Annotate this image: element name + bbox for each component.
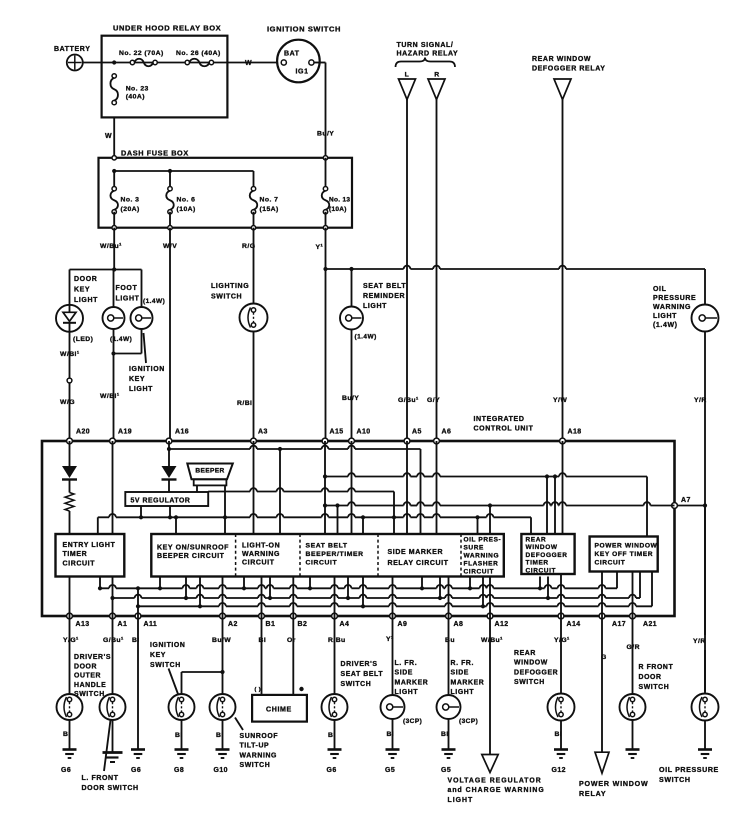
svg-text:REAR WINDOW: REAR WINDOW xyxy=(532,56,591,63)
svg-text:( ): ( ) xyxy=(255,687,261,693)
svg-text:RELAY CIRCUIT: RELAY CIRCUIT xyxy=(388,560,449,567)
svg-text:W: W xyxy=(245,60,252,67)
svg-text:DEFOGGER: DEFOGGER xyxy=(514,669,558,676)
svg-text:DEFOGGER RELAY: DEFOGGER RELAY xyxy=(532,66,606,73)
svg-text:(20A): (20A) xyxy=(121,206,140,213)
svg-text:BAT: BAT xyxy=(284,51,300,58)
svg-text:SIDE MARKER: SIDE MARKER xyxy=(388,549,444,556)
svg-text:CHIME: CHIME xyxy=(266,706,292,714)
svg-text:MARKER: MARKER xyxy=(395,679,429,686)
svg-text:(10A): (10A) xyxy=(177,206,196,213)
svg-text:OIL: OIL xyxy=(653,286,667,293)
svg-text:TIMER: TIMER xyxy=(526,560,549,567)
svg-text:Bl: Bl xyxy=(387,731,395,738)
svg-text:Bu: Bu xyxy=(445,637,455,644)
svg-text:Bu/Y: Bu/Y xyxy=(317,131,334,138)
svg-text:CIRCUIT: CIRCUIT xyxy=(63,560,96,567)
svg-text:Bl: Bl xyxy=(441,731,449,738)
svg-text:LIGHT: LIGHT xyxy=(74,297,98,304)
svg-text:A14: A14 xyxy=(567,621,581,628)
svg-text:BEEPER CIRCUIT: BEEPER CIRCUIT xyxy=(157,553,225,560)
svg-text:OUTER: OUTER xyxy=(74,673,101,680)
svg-text:SWITCH: SWITCH xyxy=(240,762,271,769)
svg-text:G8: G8 xyxy=(174,767,184,774)
svg-text:B2: B2 xyxy=(298,621,308,628)
svg-text:WINDOW: WINDOW xyxy=(526,544,558,551)
svg-text:LIGHT: LIGHT xyxy=(363,303,387,310)
svg-text:R/Bu: R/Bu xyxy=(328,637,346,644)
svg-text:A21: A21 xyxy=(643,621,657,628)
svg-text:G/Bu¹: G/Bu¹ xyxy=(103,637,124,644)
svg-text:SWITCH: SWITCH xyxy=(341,681,372,688)
svg-text:SWITCH: SWITCH xyxy=(150,662,181,669)
svg-text:WARNING: WARNING xyxy=(242,551,280,558)
svg-text:RELAY: RELAY xyxy=(579,790,606,798)
svg-text:No. 6: No. 6 xyxy=(177,197,196,204)
svg-text:Y/R: Y/R xyxy=(694,397,707,404)
svg-text:WARNING: WARNING xyxy=(240,752,278,759)
svg-text:A4: A4 xyxy=(340,621,350,628)
svg-text:A5: A5 xyxy=(412,429,422,436)
svg-text:LIGHT-ON: LIGHT-ON xyxy=(242,543,280,550)
svg-text:OIL PRES-: OIL PRES- xyxy=(464,537,502,544)
svg-text:(40A): (40A) xyxy=(126,94,145,101)
svg-text:A19: A19 xyxy=(118,429,132,436)
svg-text:W/Bu¹: W/Bu¹ xyxy=(100,243,122,250)
svg-text:A9: A9 xyxy=(398,621,408,628)
svg-text:ENTRY LIGHT: ENTRY LIGHT xyxy=(63,542,116,549)
svg-text:PRESSURE: PRESSURE xyxy=(653,295,696,302)
svg-text:OIL PRESSURE: OIL PRESSURE xyxy=(659,766,719,774)
svg-text:LIGHT: LIGHT xyxy=(129,386,153,393)
svg-text:POWER WINDOW: POWER WINDOW xyxy=(595,543,658,550)
svg-text:DASH FUSE BOX: DASH FUSE BOX xyxy=(121,149,189,158)
svg-text:G10: G10 xyxy=(214,767,228,774)
svg-text:CONTROL UNIT: CONTROL UNIT xyxy=(474,426,534,433)
svg-text:IGNITION: IGNITION xyxy=(129,366,165,373)
svg-text:G6: G6 xyxy=(327,767,337,774)
svg-text:Bl: Bl xyxy=(63,731,71,738)
svg-text:SEAT BELT: SEAT BELT xyxy=(306,543,348,550)
svg-text:G5: G5 xyxy=(441,767,451,774)
svg-text:Y/R: Y/R xyxy=(693,638,706,645)
svg-text:CIRCUIT: CIRCUIT xyxy=(306,559,338,566)
svg-text:WARNING: WARNING xyxy=(653,304,691,311)
svg-text:SWITCH: SWITCH xyxy=(514,679,545,686)
svg-text:W: W xyxy=(105,133,112,140)
svg-text:R FRONT: R FRONT xyxy=(639,664,674,671)
svg-text:TURN SIGNAL/: TURN SIGNAL/ xyxy=(397,42,454,49)
svg-text:W/Bl¹: W/Bl¹ xyxy=(100,393,120,400)
svg-text:(3CP): (3CP) xyxy=(403,718,422,725)
svg-text:Y/G¹: Y/G¹ xyxy=(63,637,79,644)
svg-text:SWITCH: SWITCH xyxy=(639,684,670,691)
svg-text:A15: A15 xyxy=(330,429,344,436)
svg-text:A7: A7 xyxy=(681,497,691,504)
svg-text:and CHARGE WARNING: and CHARGE WARNING xyxy=(448,787,545,794)
svg-text:W/G: W/G xyxy=(60,399,75,406)
svg-text:R. FR.: R. FR. xyxy=(451,660,475,667)
svg-text:KEY: KEY xyxy=(150,652,166,659)
svg-text:SUNROOF: SUNROOF xyxy=(240,733,279,740)
svg-text:BEEPER/TIMER: BEEPER/TIMER xyxy=(306,551,364,558)
svg-text:IGNITION SWITCH: IGNITION SWITCH xyxy=(267,25,341,34)
svg-text:W/Bl¹: W/Bl¹ xyxy=(60,351,80,358)
svg-text:CIRCUIT: CIRCUIT xyxy=(242,559,275,566)
svg-text:A1: A1 xyxy=(118,621,128,628)
svg-text:No. 26 (40A): No. 26 (40A) xyxy=(176,50,221,57)
svg-text:SURE: SURE xyxy=(464,545,485,552)
svg-text:(1.4W): (1.4W) xyxy=(355,334,377,341)
svg-text:DEFOGGER: DEFOGGER xyxy=(526,552,568,559)
svg-text:DRIVER'S: DRIVER'S xyxy=(74,654,111,661)
svg-text:SWITCH: SWITCH xyxy=(659,776,691,784)
svg-text:No. 23: No. 23 xyxy=(126,86,149,93)
svg-text:G12: G12 xyxy=(552,767,566,774)
svg-text:No. 22 (70A): No. 22 (70A) xyxy=(119,50,164,57)
svg-text:CIRCUIT: CIRCUIT xyxy=(464,569,495,576)
svg-text:TIMER: TIMER xyxy=(63,551,88,558)
svg-text:SIDE: SIDE xyxy=(451,670,469,677)
svg-text:SWITCH: SWITCH xyxy=(211,294,242,301)
svg-text:DOOR SWITCH: DOOR SWITCH xyxy=(82,785,139,792)
svg-text:Y¹: Y¹ xyxy=(316,244,324,251)
svg-text:KEY OFF TIMER: KEY OFF TIMER xyxy=(595,551,654,558)
svg-text:(1.4W): (1.4W) xyxy=(143,298,165,305)
svg-text:5V REGULATOR: 5V REGULATOR xyxy=(131,498,191,505)
svg-text:DRIVER'S: DRIVER'S xyxy=(341,661,378,668)
svg-text:A13: A13 xyxy=(76,621,90,628)
svg-text:WARNING: WARNING xyxy=(464,553,500,560)
svg-text:A20: A20 xyxy=(76,429,90,436)
svg-text:DOOR: DOOR xyxy=(74,663,97,670)
svg-text:REAR: REAR xyxy=(514,650,536,657)
svg-text:LIGHT: LIGHT xyxy=(448,797,474,804)
svg-text:FLASHER: FLASHER xyxy=(464,561,499,568)
svg-text:IGNITION: IGNITION xyxy=(150,642,185,649)
svg-text:Bu/Y: Bu/Y xyxy=(342,395,359,402)
svg-text:UNDER HOOD RELAY BOX: UNDER HOOD RELAY BOX xyxy=(113,24,221,33)
svg-text:DOOR: DOOR xyxy=(639,674,662,681)
svg-text:A6: A6 xyxy=(442,429,452,436)
svg-text:A16: A16 xyxy=(175,429,189,436)
svg-text:A17: A17 xyxy=(612,621,626,628)
svg-text:HAZARD RELAY: HAZARD RELAY xyxy=(397,51,459,58)
svg-text:POWER WINDOW: POWER WINDOW xyxy=(579,780,649,788)
svg-text:G/Bu¹: G/Bu¹ xyxy=(398,397,419,404)
svg-text:IG1: IG1 xyxy=(296,69,309,76)
svg-text:A10: A10 xyxy=(357,429,371,436)
svg-text:LIGHT: LIGHT xyxy=(451,689,475,696)
svg-text:L. FR.: L. FR. xyxy=(395,660,418,667)
svg-text:KEY ON/SUNROOF: KEY ON/SUNROOF xyxy=(157,545,229,552)
svg-text:(LED): (LED) xyxy=(73,336,93,343)
svg-text:W/Bu¹: W/Bu¹ xyxy=(481,637,503,644)
svg-text:Bl: Bl xyxy=(175,732,183,739)
svg-text:SEAT BELT: SEAT BELT xyxy=(363,283,406,290)
svg-text:A12: A12 xyxy=(495,621,509,628)
svg-text:SIDE: SIDE xyxy=(395,670,413,677)
svg-text:B1: B1 xyxy=(266,621,276,628)
svg-text:R: R xyxy=(434,72,440,79)
svg-text:No. 3: No. 3 xyxy=(121,197,140,204)
svg-text:A8: A8 xyxy=(454,621,464,628)
svg-text:A2: A2 xyxy=(228,621,238,628)
svg-text:LIGHT: LIGHT xyxy=(395,689,419,696)
svg-text:CIRCUIT: CIRCUIT xyxy=(595,559,626,566)
svg-text:SEAT BELT: SEAT BELT xyxy=(341,671,384,678)
svg-text:INTEGRATED: INTEGRATED xyxy=(474,416,525,423)
svg-text:L. FRONT: L. FRONT xyxy=(82,775,119,782)
svg-text:KEY: KEY xyxy=(129,376,145,383)
svg-text:L: L xyxy=(405,72,410,79)
svg-text:G5: G5 xyxy=(385,767,395,774)
svg-text:VOLTAGE REGULATOR: VOLTAGE REGULATOR xyxy=(448,778,542,785)
svg-text:(1.4W): (1.4W) xyxy=(653,322,678,329)
svg-text:LIGHT: LIGHT xyxy=(653,313,677,320)
svg-text:Y/G¹: Y/G¹ xyxy=(554,637,570,644)
svg-text:MARKER: MARKER xyxy=(451,679,485,686)
svg-text:(3CP): (3CP) xyxy=(459,718,478,725)
svg-text:CIRCUIT: CIRCUIT xyxy=(526,567,557,574)
svg-text:A18: A18 xyxy=(568,429,582,436)
svg-text:(10A): (10A) xyxy=(329,206,347,213)
svg-text:LIGHT: LIGHT xyxy=(116,296,140,303)
svg-text:TILT-UP: TILT-UP xyxy=(240,743,270,750)
svg-text:REMINDER: REMINDER xyxy=(363,293,405,300)
svg-text:A11: A11 xyxy=(144,621,158,628)
svg-text:REAR: REAR xyxy=(526,537,547,544)
svg-text:Y/W: Y/W xyxy=(553,397,567,404)
svg-text:A3: A3 xyxy=(258,429,268,436)
svg-text:No. 7: No. 7 xyxy=(260,197,279,204)
svg-text:G6: G6 xyxy=(61,767,71,774)
svg-text:(15A): (15A) xyxy=(260,206,279,213)
svg-text:WINDOW: WINDOW xyxy=(514,660,548,667)
svg-text:G6: G6 xyxy=(131,767,141,774)
svg-text:No. 13: No. 13 xyxy=(329,197,350,204)
svg-text:BEEPER: BEEPER xyxy=(195,468,224,475)
svg-text:Bl: Bl xyxy=(216,732,224,739)
svg-text:HANDLE: HANDLE xyxy=(74,682,106,689)
svg-text:FOOT: FOOT xyxy=(116,285,138,292)
svg-text:LIGHTING: LIGHTING xyxy=(211,283,249,290)
svg-text:R/Bl: R/Bl xyxy=(237,400,252,407)
svg-text:G/Y: G/Y xyxy=(427,397,440,404)
svg-text:Or: Or xyxy=(287,637,296,644)
svg-text:Bl: Bl xyxy=(328,732,336,739)
svg-text:Bl: Bl xyxy=(555,731,563,738)
svg-text:BATTERY: BATTERY xyxy=(54,46,90,53)
svg-text:DOOR: DOOR xyxy=(74,276,97,283)
svg-text:KEY: KEY xyxy=(74,287,90,294)
